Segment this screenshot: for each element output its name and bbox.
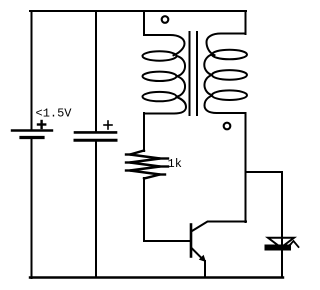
resistor R1 1k zigzag (126, 151, 168, 179)
transformer T1 secondary winding L2 (204, 34, 247, 114)
wire top rail (30, 10, 246, 12)
LED D1 light arrow head chevron (289, 241, 299, 247)
battery plus sign (38, 121, 45, 128)
wire primary bottom lead to resistor (143, 113, 145, 151)
transformer T1 primary winding L1 (143, 35, 187, 114)
wire secondary top lead (right rail upper) (245, 11, 247, 34)
wire emitter to bottom rail (204, 261, 206, 277)
battery B1 positive long plate (12, 129, 52, 131)
LED D1 triangle (268, 238, 294, 248)
capacitor C1 top plate (75, 131, 116, 134)
transistor Q1 emitter lead (192, 249, 203, 260)
capacitor C1 bottom plate (75, 139, 116, 142)
svg-text:<1.5V: <1.5V (36, 107, 73, 121)
battery B1 negative short plate (21, 136, 43, 139)
wire right rail (secondary bottom to collector node) (245, 113, 247, 222)
wire capacitor lower lead (95, 141, 97, 277)
transistor Q1 base bar (190, 225, 193, 257)
LED D1 light arrow shaft (284, 245, 291, 249)
transformer core lines (190, 32, 198, 115)
wire left rail upper (battery positive lead) (31, 11, 33, 129)
wire left rail lower (battery negative lead) (31, 138, 33, 278)
wire base lead (144, 240, 190, 242)
wire bottom rail (30, 276, 283, 278)
transformer T1 secondary phase dot (224, 123, 231, 130)
wire LED tap horizontal (246, 171, 283, 173)
svg-text:1k: 1k (168, 157, 182, 171)
capacitor plus sign (104, 121, 112, 129)
transformer T1 primary phase dot (162, 16, 169, 23)
LED D1 cathode bar (265, 245, 292, 251)
wire capacitor upper lead (95, 11, 97, 131)
wire resistor to base (143, 178, 145, 241)
wire transformer primary top stub (143, 11, 145, 35)
wire LED anode lead (281, 172, 283, 277)
transistor Q1 collector lead (192, 222, 246, 232)
transistor Q1 emitter arrow head (199, 255, 206, 262)
